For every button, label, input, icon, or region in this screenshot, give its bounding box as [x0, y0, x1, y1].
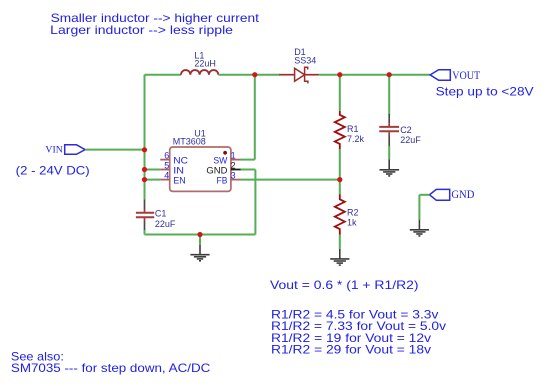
- wire top rail left segment: [145, 74, 182, 76]
- wire IN pin: [145, 169, 161, 171]
- svg-text:2: 2: [231, 161, 236, 171]
- svg-text:R2: R2: [347, 207, 359, 217]
- junction FB/R1/R2: [337, 177, 342, 182]
- svg-text:C1: C1: [155, 208, 167, 218]
- svg-text:FB: FB: [217, 175, 228, 185]
- wire SW branch vertical: [254, 75, 256, 160]
- ground below C2: [380, 160, 400, 176]
- wire bottom rail: [145, 234, 256, 236]
- flag GND: [430, 189, 450, 200]
- wire EN pin: [145, 179, 161, 181]
- pin 5 IN stub: [160, 169, 170, 171]
- svg-text:GND: GND: [451, 189, 474, 201]
- wire top rail mid segment: [218, 74, 280, 76]
- svg-text:MT3608: MT3608: [173, 137, 206, 147]
- svg-text:C2: C2: [400, 125, 412, 135]
- wire left vertical: [144, 75, 146, 200]
- wire GND flag vertical: [418, 195, 420, 220]
- pin 1 marker dot: [223, 151, 227, 155]
- wire top rail right segment: [319, 74, 430, 76]
- ground below GND flag: [410, 220, 429, 236]
- svg-text:6: 6: [164, 151, 169, 161]
- junction R1 branch: [337, 72, 342, 77]
- svg-text:GND: GND: [206, 165, 228, 175]
- svg-text:22uF: 22uF: [400, 135, 421, 145]
- ground below bottom rail: [190, 245, 209, 261]
- svg-text:IN: IN: [173, 165, 184, 175]
- wire GND flag horizontal: [419, 194, 429, 196]
- svg-text:22uH: 22uH: [194, 59, 216, 69]
- svg-text:3: 3: [231, 171, 236, 181]
- wire below C1: [144, 230, 146, 235]
- svg-text:SW: SW: [213, 155, 227, 165]
- wire R2 lower: [339, 235, 341, 249]
- flag VIN: [65, 145, 85, 155]
- wire SW horizontal: [241, 159, 255, 161]
- svg-text:VIN: VIN: [45, 145, 62, 156]
- flag VOUT: [430, 70, 450, 81]
- junction VIN: [142, 147, 147, 152]
- svg-text:1k: 1k: [347, 218, 357, 228]
- svg-text:Step up to <28V: Step up to <28V: [436, 85, 534, 99]
- svg-text:Larger inductor --> less rippl: Larger inductor --> less ripple: [50, 23, 233, 37]
- resistor R1: [335, 111, 345, 149]
- wire R1 lower: [339, 149, 341, 180]
- junction C2 branch: [387, 72, 392, 77]
- junction IN pin: [142, 167, 147, 172]
- wire GND pin horizontal: [241, 169, 256, 171]
- pin 3 FB stub: [231, 179, 241, 181]
- pin 2 GND stub: [231, 169, 241, 171]
- wire R2 upper: [339, 180, 341, 195]
- wire C2 upper: [388, 75, 390, 115]
- ground below R2: [330, 249, 349, 265]
- svg-text:EN: EN: [173, 175, 185, 185]
- wire ground stub: [199, 235, 201, 245]
- svg-text:22uF: 22uF: [155, 219, 176, 229]
- junction bottom ground: [197, 232, 202, 237]
- pin 4 EN stub: [160, 179, 170, 181]
- svg-text:Vout = 0.6 * (1 + R1/R2): Vout = 0.6 * (1 + R1/R2): [270, 278, 419, 292]
- junction EN pin: [142, 177, 147, 182]
- wire C2 lower: [388, 146, 390, 160]
- wire GND pin vertical: [254, 170, 256, 235]
- resistor R2: [335, 194, 345, 234]
- comment text top: [50, 11, 259, 37]
- svg-text:1: 1: [231, 151, 236, 161]
- svg-text:SM7035 --- for step down, AC/D: SM7035 --- for step down, AC/DC: [11, 361, 211, 375]
- junction SW branch: [252, 72, 257, 77]
- svg-text:(2 - 24V DC): (2 - 24V DC): [16, 163, 90, 177]
- svg-text:R1: R1: [347, 124, 359, 134]
- svg-text:7.2k: 7.2k: [347, 134, 365, 144]
- svg-text:VOUT: VOUT: [452, 68, 481, 82]
- wire R1 branch upper: [339, 75, 341, 111]
- diode D1: [279, 67, 319, 83]
- pin 1 SW stub: [231, 159, 241, 161]
- svg-text:R1/R2 = 29 for Vout = 18v: R1/R2 = 29 for Vout = 18v: [271, 343, 431, 357]
- wire FB horizontal: [241, 179, 340, 181]
- svg-text:5: 5: [164, 161, 169, 171]
- capacitor C1: [136, 200, 154, 231]
- svg-text:SS34: SS34: [294, 56, 316, 66]
- svg-text:4: 4: [164, 171, 169, 181]
- IC U1 MT3608 body: [170, 147, 231, 191]
- capacitor C2: [379, 114, 399, 146]
- pin 6 NC stub: [160, 159, 170, 161]
- inductor L1: [181, 70, 218, 75]
- wire VIN horizontal: [85, 149, 144, 151]
- svg-text:NC: NC: [173, 155, 188, 165]
